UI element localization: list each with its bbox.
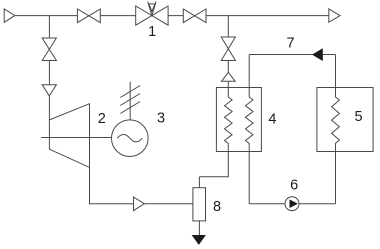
svg-text:5: 5 xyxy=(355,109,363,125)
svg-text:8: 8 xyxy=(213,199,221,215)
svg-text:3: 3 xyxy=(157,111,165,127)
svg-text:4: 4 xyxy=(268,111,276,127)
svg-text:7: 7 xyxy=(286,36,294,52)
svg-text:2: 2 xyxy=(98,111,106,127)
svg-text:6: 6 xyxy=(290,178,298,194)
svg-text:1: 1 xyxy=(148,24,156,40)
